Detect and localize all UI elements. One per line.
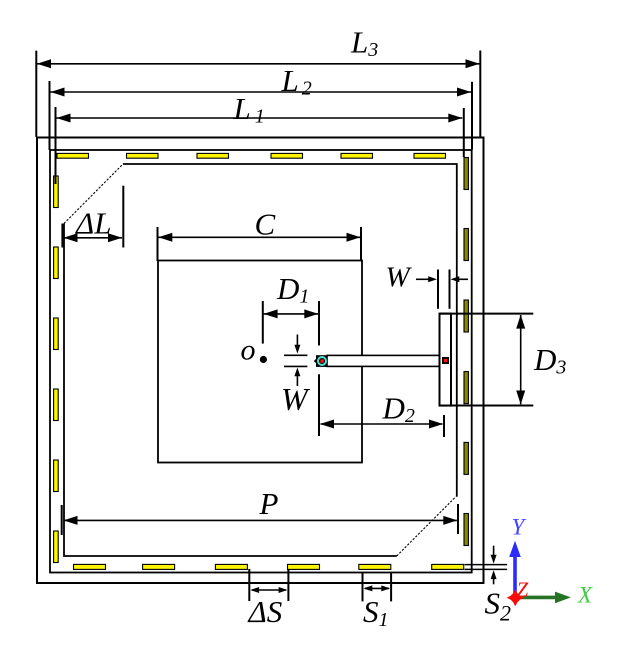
svg-text:W: W	[281, 381, 311, 417]
svg-text:ΔL: ΔL	[74, 206, 111, 241]
svg-text:X: X	[577, 583, 593, 608]
svg-text:P: P	[259, 486, 279, 521]
svg-text:ΔS: ΔS	[247, 594, 283, 629]
svg-text:C: C	[255, 207, 276, 242]
svg-text:W: W	[386, 262, 413, 294]
svg-text:o: o	[241, 334, 256, 367]
svg-text:Z: Z	[517, 578, 529, 602]
svg-text:Y: Y	[512, 515, 527, 540]
